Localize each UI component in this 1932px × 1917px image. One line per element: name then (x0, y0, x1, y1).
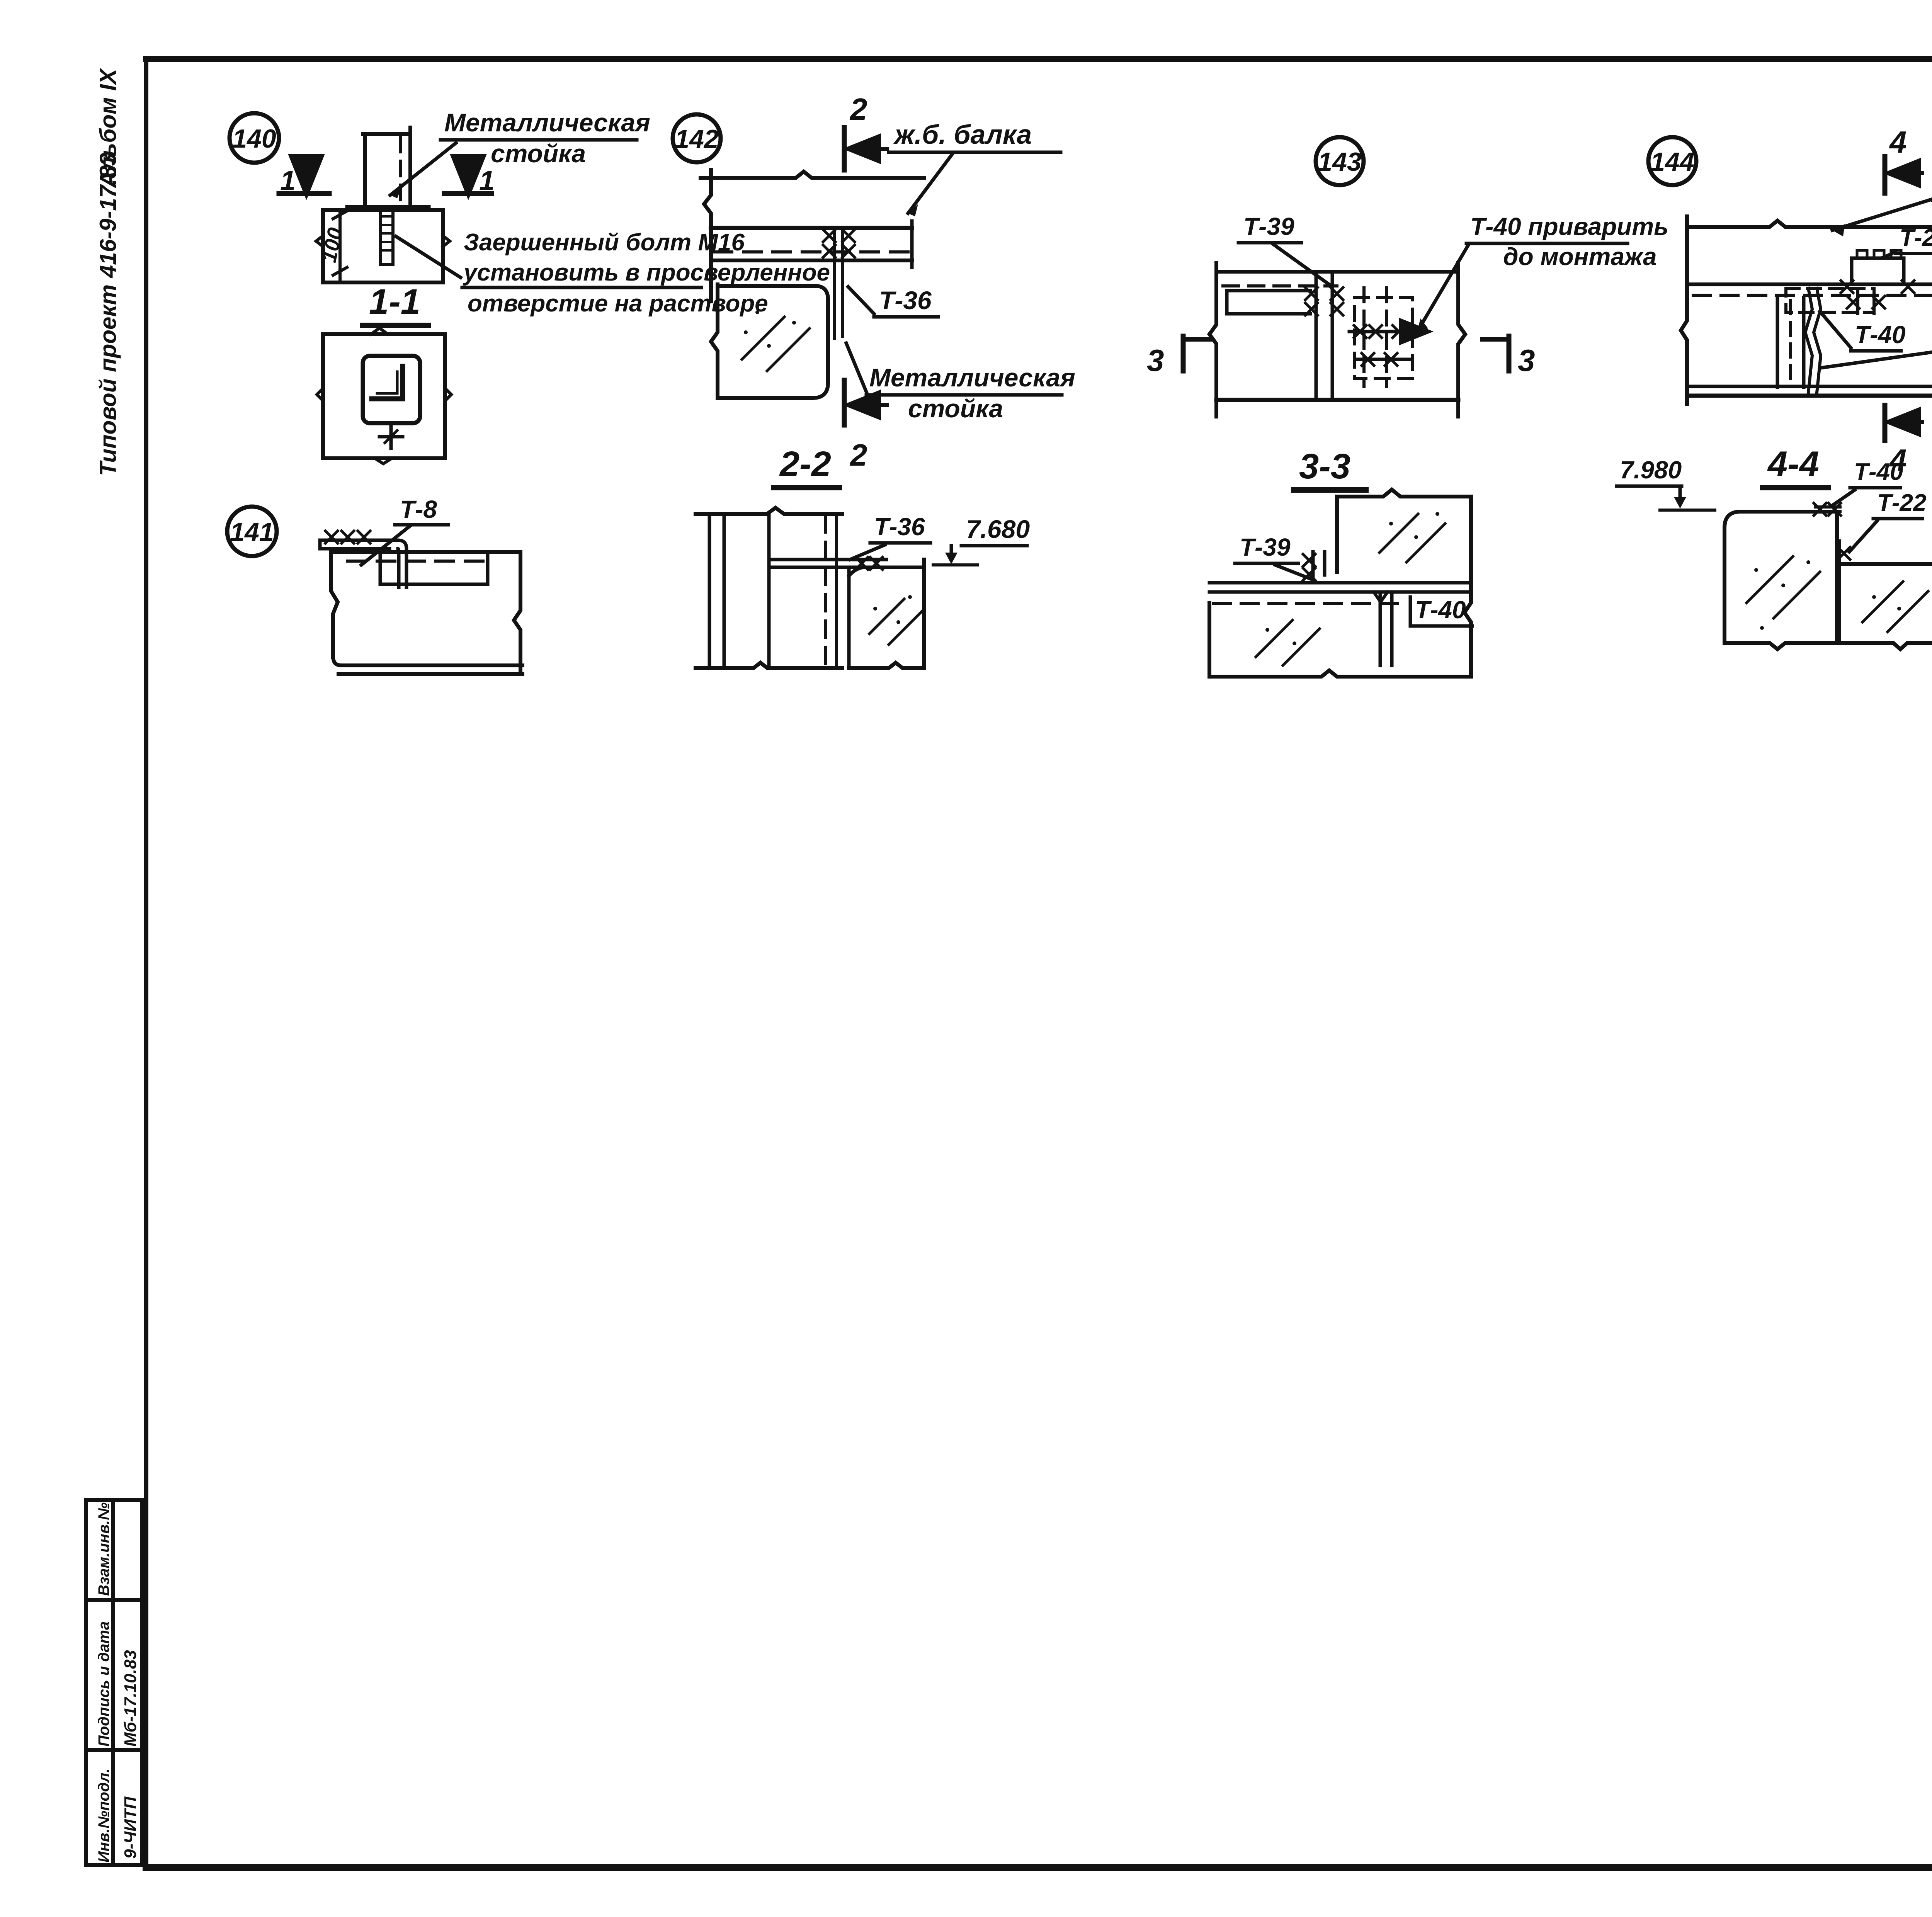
svg-text:стойка: стойка (908, 394, 1003, 423)
left stamp table (86, 1500, 142, 1865)
weld marks on strap (325, 531, 338, 543)
svg-text:1: 1 (280, 165, 296, 196)
post hidden bolt line (399, 137, 402, 205)
angle T-39 in section (1313, 552, 1325, 582)
svg-text:Т-40: Т-40 (1854, 459, 1903, 485)
svg-text:Т-40: Т-40 (1415, 596, 1466, 624)
svg-text:Т-40: Т-40 (1855, 321, 1906, 349)
svg-text:Т-22: Т-22 (1877, 490, 1926, 516)
3-3 upper panel (1337, 490, 1471, 497)
svg-text:Металлическая: Металлическая (869, 363, 1075, 392)
panel right edge with break (514, 552, 520, 674)
joint band (1209, 583, 1471, 592)
hidden joint dashed (348, 560, 483, 563)
sheet frame left border (144, 59, 148, 1868)
wall panel right (849, 567, 924, 668)
arrow bar through plate (1349, 330, 1427, 333)
metal post (363, 128, 410, 207)
section 1-1 square panel (323, 334, 445, 458)
anchor angle in plan (372, 366, 403, 399)
column top edge (696, 508, 842, 514)
panel outline 143 (1209, 263, 1216, 417)
upper slab edge (701, 172, 924, 178)
svg-text:7.680: 7.680 (966, 515, 1030, 543)
section 2-2: column flange lines (709, 514, 769, 668)
svg-text:Взам.инв.№: Взам.инв.№ (95, 1502, 112, 1596)
sheet frame top border (146, 56, 1932, 62)
svg-text:Мб-17.10.83: Мб-17.10.83 (121, 1650, 140, 1747)
svg-text:Инв.№подл.: Инв.№подл. (95, 1768, 112, 1863)
svg-text:2: 2 (849, 92, 867, 126)
svg-text:3-3: 3-3 (1299, 447, 1350, 486)
slab break ticks (316, 236, 450, 247)
lower panel (1209, 603, 1471, 677)
T-22 angle below (1858, 288, 1874, 314)
svg-text:2: 2 (849, 438, 867, 472)
shelf angle T-36 (769, 560, 886, 567)
svg-text:Подпись и дата: Подпись и дата (95, 1621, 112, 1747)
hatch right panel (1862, 582, 1928, 632)
section mark 4 bottom (1883, 405, 1888, 441)
svg-text:установить в просверленное: установить в просверленное (463, 259, 830, 286)
base plate (348, 205, 428, 210)
plate T-39 vertical (1316, 275, 1332, 398)
panel left edge with hook (331, 552, 338, 657)
leader to metal post (390, 143, 456, 195)
wall panel below (711, 284, 828, 398)
angle strap T-8 (320, 540, 406, 587)
svg-text:Т-39: Т-39 (1240, 533, 1291, 561)
anchor bolt (381, 211, 393, 265)
beam soffit line (1687, 282, 1932, 286)
svg-text:4: 4 (1889, 125, 1907, 159)
left panel edges (1777, 298, 1804, 387)
sheet frame bottom border (146, 1864, 1932, 1871)
bolt cross mark (379, 425, 403, 448)
svg-text:Заершенный болт М16: Заершенный болт М16 (464, 229, 745, 256)
svg-text:142: 142 (675, 124, 719, 154)
hatch lower panel (1256, 620, 1320, 665)
recess in panel (380, 552, 488, 584)
hatch upper panel (1379, 514, 1445, 562)
beam top flange (711, 226, 912, 230)
drawing outline left/right/bottom (1681, 216, 1932, 404)
left wall edge (704, 170, 711, 301)
T-40 stem (1380, 592, 1392, 665)
svg-text:Т-36: Т-36 (879, 286, 932, 315)
section mark 1 left (279, 191, 329, 196)
svg-text:Т-8: Т-8 (400, 495, 437, 523)
concrete hatch right panel (869, 599, 923, 645)
hidden plate T-40 (1786, 288, 1874, 312)
section mark 1 right (444, 191, 492, 196)
detail marker circle 140 (230, 113, 279, 163)
svg-text:143: 143 (1318, 147, 1362, 177)
svg-text:1-1: 1-1 (369, 282, 420, 321)
foundation slab (323, 210, 443, 282)
leader to angle (361, 526, 410, 565)
section mark 3 right (1507, 336, 1512, 371)
centre joint (1805, 288, 1821, 393)
svg-text:140: 140 (232, 124, 276, 153)
svg-text:Т-22: Т-22 (1900, 225, 1932, 251)
svg-text:3: 3 (1147, 343, 1164, 378)
square break marks (317, 328, 451, 464)
detail marker circle 141 (227, 507, 277, 556)
4-4 right panel (1839, 564, 1932, 649)
detail marker circle 143 (1316, 137, 1364, 185)
svg-text:Т-36: Т-36 (874, 513, 925, 541)
svg-text:4-4: 4-4 (1767, 444, 1819, 484)
detail marker circle 142 (673, 114, 721, 162)
recess bar (1227, 291, 1310, 314)
detail marker circle 144 (1648, 137, 1696, 185)
svg-text:7.980: 7.980 (1620, 456, 1682, 484)
hidden dashes top (1223, 284, 1337, 287)
svg-text:до монтажа: до монтажа (1503, 243, 1657, 270)
hatch left panel (1747, 556, 1820, 618)
svg-text:отверстие на растворе: отверстие на растворе (468, 290, 768, 317)
svg-text:стойка: стойка (491, 139, 586, 168)
svg-text:2-2: 2-2 (779, 444, 831, 484)
leader to beam (908, 154, 952, 213)
svg-text:Типовой проект 416-9-17.83: Типовой проект 416-9-17.83 (95, 153, 121, 476)
svg-text:Т-40 приварить: Т-40 приварить (1470, 213, 1668, 240)
embedded plate outline (363, 356, 420, 423)
panel bottom double edge (333, 657, 522, 674)
4-4 left panel (1725, 512, 1837, 649)
svg-text:Альбом IX: Альбом IX (95, 67, 121, 189)
svg-text:Металлическая: Металлическая (444, 108, 650, 137)
beam right end tick (910, 221, 914, 267)
svg-text:141: 141 (230, 517, 274, 547)
svg-text:3: 3 (1518, 343, 1535, 378)
hidden plate T-40 dashed box (1354, 298, 1412, 379)
vertical dim 100 (338, 212, 342, 281)
column bottom edge (696, 663, 842, 668)
svg-text:144: 144 (1650, 147, 1694, 177)
hidden line below beam (1693, 294, 1932, 297)
slab top edge (1687, 221, 1932, 227)
T-22 angle at step (1839, 541, 1859, 564)
hidden edge dashed (824, 516, 827, 667)
svg-text:Т-39: Т-39 (1243, 213, 1294, 240)
T-40 strap on top (1815, 507, 1840, 512)
weld marks on plate (823, 230, 835, 242)
beam hidden dashed (714, 250, 910, 253)
beam bottom edge (711, 259, 912, 262)
section mark 2 bottom (842, 380, 847, 425)
plate T-36 (835, 227, 842, 338)
bolted plate T-22 (1852, 258, 1904, 284)
leader from bolt to label (396, 236, 461, 277)
svg-text:ж.б. балка: ж.б. балка (893, 119, 1032, 150)
panel top edge (332, 550, 520, 554)
concrete hatch (742, 317, 810, 371)
svg-text:9-ЧИТП: 9-ЧИТП (121, 1796, 140, 1859)
svg-text:1: 1 (479, 165, 495, 196)
